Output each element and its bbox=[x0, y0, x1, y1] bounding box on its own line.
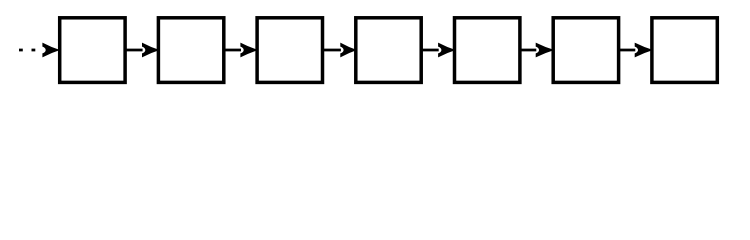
node box 1 bbox=[60, 18, 125, 83]
arrow from box 5 to box 6: head bbox=[536, 43, 555, 58]
arrow from box 3 to box 4: head bbox=[340, 43, 357, 58]
node box 7 bbox=[652, 18, 717, 83]
arrow from box 6 to box 7: head bbox=[635, 43, 653, 58]
arrow from box 2 to box 3: head bbox=[240, 43, 258, 58]
node box 5 bbox=[455, 18, 520, 83]
arrowhead into box 1 bbox=[42, 43, 60, 58]
node box 3 bbox=[257, 18, 322, 83]
arrow from box 4 to box 5: head bbox=[438, 43, 456, 58]
arrow from box 3 to box 4: shaft bbox=[323, 49, 341, 52]
arrow from box 5 to box 6: shaft bbox=[520, 49, 536, 52]
chain diagram: dashed continuation arrow into 7 linked boxes bbox=[0, 0, 750, 100]
arrow from box 4 to box 5: shaft bbox=[421, 49, 439, 52]
dashed lead-in line (continuation from left) bbox=[19, 49, 43, 52]
node box 2 bbox=[158, 18, 223, 83]
arrow from box 6 to box 7: shaft bbox=[619, 49, 636, 52]
node box 4 bbox=[356, 18, 421, 83]
node box 6 bbox=[553, 18, 618, 83]
arrow from box 1 to box 2: head bbox=[142, 43, 160, 58]
arrow from box 1 to box 2: shaft bbox=[125, 49, 143, 52]
arrow from box 2 to box 3: shaft bbox=[224, 49, 241, 52]
